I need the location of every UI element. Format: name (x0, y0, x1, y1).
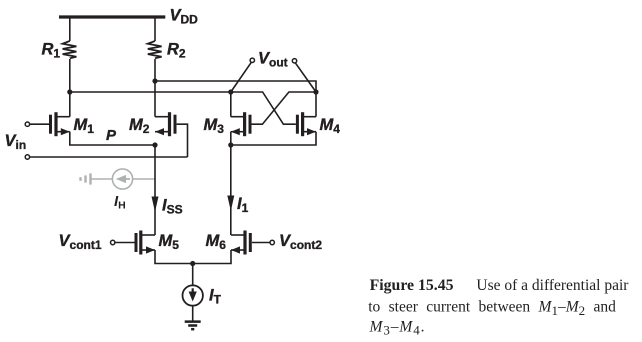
wire Vout right diagonal (295, 63, 316, 92)
wire R1 bottom to M1 drain (69, 59, 71, 117)
wire M3 source to M6 drain (230, 132, 232, 235)
terminal Vout right (292, 59, 296, 63)
svg-text:Vin: Vin (5, 132, 27, 152)
svg-text:R1: R1 (42, 40, 61, 60)
svg-text:M5: M5 (159, 232, 180, 252)
wire M2 gate loop (177, 124, 188, 157)
svg-text:M4: M4 (320, 116, 341, 136)
transistor M4 (297, 112, 316, 136)
current source IH (112, 169, 132, 189)
wire M3 gate from right dot (252, 92, 317, 124)
svg-text:IT: IT (209, 287, 222, 307)
transistor M6 (231, 231, 250, 255)
wire tail to IT (192, 264, 194, 286)
resistor R1 (63, 41, 77, 58)
wire lower bus M1 drain to M4 drain (70, 92, 296, 124)
terminal Vout left (250, 58, 254, 62)
wire grey right (133, 178, 155, 180)
transistor M2 (155, 112, 175, 136)
transistor M5 (136, 231, 155, 255)
terminal Vin lower (25, 155, 29, 159)
svg-text:Vout: Vout (258, 50, 288, 70)
ground (185, 322, 201, 330)
svg-text:Vcont2: Vcont2 (279, 232, 322, 252)
node dot M4 drain (313, 89, 318, 94)
terminal Vin upper (25, 122, 29, 126)
terminal Vcont1 (111, 240, 115, 244)
wire R2 bottom to M2 drain (154, 59, 156, 117)
svg-text:M1: M1 (74, 116, 95, 136)
node P dot (152, 142, 157, 147)
wire M6 gate to Vcont2 (252, 242, 270, 244)
wire IT to ground (192, 306, 194, 321)
wire R1 top (69, 17, 71, 41)
wire Vout left diagonal (231, 62, 252, 92)
power rail VDD (59, 15, 165, 18)
svg-text:M3–M4.: M3–M4. (369, 318, 426, 337)
wire Vcont1 to M5 gate (115, 242, 134, 244)
node dot M3 drain (228, 89, 233, 94)
svg-text:P: P (106, 127, 117, 144)
node dot tail (190, 261, 195, 266)
wire R2 top (154, 17, 156, 41)
svg-text:to steer current between M1–M2: to steer current between M1–M2 and (368, 299, 616, 318)
transistor M3 (231, 112, 250, 136)
wire P to M5 drain (154, 145, 156, 235)
svg-text:IH: IH (114, 193, 126, 212)
wire upper bus R2 to M4 drain (155, 81, 316, 92)
wire Vin lower to M2 gate (30, 156, 188, 158)
node dot bottom M3 source (228, 142, 233, 147)
node dot M1 drain (67, 89, 72, 94)
current source IT (183, 285, 203, 305)
wire M1 source to node P (70, 132, 155, 145)
svg-text:R2: R2 (167, 40, 186, 60)
ground grey sideways (81, 173, 91, 184)
svg-text:ISS: ISS (162, 196, 183, 216)
wire M4 source return (231, 132, 316, 145)
wire M3 drain (230, 92, 232, 117)
current arrow ISS (152, 197, 159, 213)
svg-text:M2: M2 (129, 116, 150, 136)
svg-text:I1: I1 (237, 195, 249, 215)
wire M5 source (155, 250, 193, 264)
wire M6 source (193, 250, 231, 264)
wire grey left (91, 178, 113, 180)
terminal Vcont2 (270, 240, 274, 244)
current arrow I1 (227, 196, 234, 212)
node dot R2 bus (152, 78, 157, 83)
svg-text:M6: M6 (206, 232, 227, 252)
wire M4 drain (315, 92, 317, 117)
svg-text:M3: M3 (204, 116, 225, 136)
wire Vin to M1 gate (30, 123, 49, 125)
svg-text:VDD: VDD (170, 7, 199, 27)
resistor R2 (148, 41, 162, 58)
transistor M1 (51, 112, 70, 136)
svg-text:Vcont1: Vcont1 (59, 232, 102, 252)
svg-text:Figure 15.45Use of a different: Figure 15.45Use of a differential pair (370, 277, 630, 294)
